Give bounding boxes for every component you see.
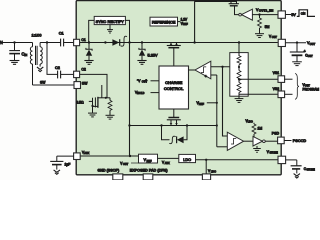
svg-text:VS1: VS1 bbox=[273, 71, 279, 75]
pin VS2 bbox=[278, 91, 285, 98]
wire to PGD pin bbox=[265, 140, 277, 142]
svg-text:AUX: AUX bbox=[84, 152, 89, 155]
pin GND (SSOP) bbox=[113, 174, 123, 180]
wire tap VS1 bbox=[239, 78, 278, 80]
svg-text:OUT2_EN: OUT2_EN bbox=[259, 9, 274, 13]
wire rail VAUX bottom bbox=[80, 155, 138, 157]
svg-text:STORE: STORE bbox=[307, 168, 316, 171]
ground under U6 bbox=[256, 146, 258, 148]
inverter U4 (VOUT2_EN buffer) bbox=[239, 13, 242, 16]
pin VLDO bbox=[202, 174, 210, 180]
svg-text:IN: IN bbox=[24, 53, 27, 57]
block VREF buffer bbox=[139, 154, 158, 163]
internal rail VAUX (top horizontal) bbox=[80, 42, 278, 44]
wire VIN to transformer primary bbox=[0, 42, 33, 44]
wire VOUT2_EN input bbox=[252, 14, 278, 16]
inverter U6 PGD driver bbox=[253, 136, 262, 146]
pin C2 bbox=[74, 71, 80, 77]
wire VS2 external bbox=[285, 93, 293, 95]
block REFERENCE bbox=[150, 17, 178, 26]
svg-text:HOLD: HOLD bbox=[137, 91, 144, 95]
wire VOUT2_EN external + waveform 5V ON bbox=[285, 14, 291, 16]
svg-text:OUT: OUT bbox=[272, 36, 278, 39]
op-amp U2 charge comparator bbox=[195, 61, 211, 79]
svg-text:C2: C2 bbox=[55, 66, 60, 70]
wire comparator to buffer bbox=[244, 140, 253, 142]
svg-text:5.25V: 5.25V bbox=[148, 54, 158, 58]
pin VS1 bbox=[278, 76, 285, 83]
svg-text:CHARGE: CHARGE bbox=[165, 80, 182, 85]
resistor divider block R1/R2/R3 bbox=[230, 53, 248, 97]
svg-text:+: + bbox=[205, 75, 207, 79]
wire VLDO drop bbox=[205, 159, 207, 161]
svg-text:SW: SW bbox=[40, 81, 46, 85]
wire VOUT external bbox=[285, 42, 306, 44]
stub + small ground under sync rectify bbox=[109, 25, 111, 30]
resistor R 1M pull-up bbox=[253, 123, 255, 124]
brace VOUT program bbox=[295, 74, 299, 100]
wire tap VS2 bbox=[239, 93, 278, 95]
svg-text:AUX: AUX bbox=[165, 162, 170, 165]
block SYNC RECTIFY bbox=[94, 16, 125, 24]
diode D2 sync rectifier (with switch squiggle) bbox=[112, 39, 119, 46]
svg-text:SW: SW bbox=[82, 81, 88, 85]
resistor R 5M pulldown bbox=[259, 15, 261, 18]
svg-text:LDO: LDO bbox=[248, 120, 253, 123]
wire store rail bbox=[128, 124, 130, 126]
wire comparator plus input bbox=[211, 74, 217, 76]
IC body U1 (power manager block) bbox=[76, 1, 281, 175]
node junction on VAUX rail bbox=[104, 41, 106, 43]
svg-text:PROGRAM: PROGRAM bbox=[303, 87, 320, 91]
ground under divider bbox=[235, 98, 244, 100]
pin PGD bbox=[278, 137, 285, 144]
svg-text:EXPOSED PAD (DFN): EXPOSED PAD (DFN) bbox=[130, 169, 168, 173]
wire comparator output to charge control bbox=[189, 69, 196, 71]
svg-text:OUT: OUT bbox=[308, 55, 314, 58]
svg-text:5M: 5M bbox=[265, 25, 270, 29]
pin VSTORE bbox=[278, 156, 286, 163]
pin C1 bbox=[74, 39, 80, 45]
ground (chevron) under 1uF bbox=[54, 170, 60, 172]
svg-text:LDO: LDO bbox=[183, 158, 191, 162]
wire vertical main VAUX drop bbox=[128, 41, 130, 43]
svg-text:CONTROL: CONTROL bbox=[164, 86, 184, 91]
pin VOUT bbox=[278, 39, 285, 46]
node junction VIN/CIN bbox=[13, 41, 15, 43]
ground below CIN bbox=[10, 60, 20, 62]
svg-text:PGOOD: PGOOD bbox=[293, 139, 307, 143]
pin EXPOSED PAD (DFN) bbox=[143, 174, 153, 180]
op-amp U5 PGOOD comparator bbox=[227, 132, 243, 150]
transistor Q1 PMOS charge path (above charge control) bbox=[170, 43, 172, 46]
wire store rail to PGOOD comparator input bbox=[217, 146, 228, 148]
diode D4 ideal diode bypass bbox=[162, 126, 170, 140]
svg-text:LDO: LDO bbox=[211, 171, 216, 174]
wire SW (primary to SW pin) bbox=[33, 84, 75, 86]
svg-text:3.5Ω: 3.5Ω bbox=[77, 101, 85, 105]
pin VOUT2_EN bbox=[278, 11, 285, 18]
wire down to PGOOD comparator bbox=[223, 67, 228, 136]
svg-text:VS2: VS2 bbox=[273, 87, 279, 91]
svg-text:ON: ON bbox=[301, 11, 306, 15]
transistor Q2 PMOS store path (below charge control) bbox=[173, 109, 175, 118]
wire VS1 external bbox=[284, 78, 292, 80]
svg-text:”: ” bbox=[146, 79, 147, 83]
svg-text:REF: REF bbox=[199, 102, 205, 106]
capacitor COUT bbox=[296, 43, 298, 52]
svg-text:GND (SSOP): GND (SSOP) bbox=[98, 169, 120, 173]
svg-text:C1: C1 bbox=[81, 38, 85, 42]
svg-text:STORE: STORE bbox=[270, 152, 279, 155]
svg-text:PGD: PGD bbox=[272, 131, 280, 135]
wire C2 branch bbox=[47, 43, 57, 75]
svg-text:OUT: OUT bbox=[310, 42, 316, 46]
capacitor CSTORE bbox=[296, 160, 298, 166]
wire VSTORE external bbox=[286, 159, 297, 161]
capacitor 1uF bbox=[56, 156, 58, 161]
wire top rail VOUT2 bbox=[195, 0, 237, 2]
wire VAUX external bbox=[57, 155, 74, 157]
svg-text:SYNC RECTIFY: SYNC RECTIFY bbox=[96, 20, 125, 24]
svg-text:C2: C2 bbox=[81, 67, 85, 71]
svg-text:REF: REF bbox=[147, 159, 153, 163]
svg-text:1µF: 1µF bbox=[65, 163, 71, 167]
ground (chevron) under transformer secondary bbox=[37, 67, 43, 69]
pin VAUX bbox=[74, 153, 81, 160]
wire secondary to coupling caps bbox=[40, 42, 60, 44]
wire C2 pin to gate node bbox=[80, 74, 107, 97]
svg-text:C1: C1 bbox=[59, 32, 64, 36]
svg-text:1M: 1M bbox=[258, 126, 263, 130]
capacitor CIN bbox=[14, 43, 16, 51]
svg-text:5V: 5V bbox=[291, 13, 296, 17]
svg-text:1:100: 1:100 bbox=[32, 33, 43, 38]
wire VREF sense vertical bbox=[216, 75, 218, 147]
resistor R gate bias bbox=[109, 98, 111, 101]
svg-text:REF: REF bbox=[183, 23, 188, 26]
wire PGD external bbox=[284, 140, 291, 142]
pin SW bbox=[74, 82, 81, 89]
node VIN bbox=[0, 0, 1, 1]
transistor Q3 PMOS VOUT2 switch bbox=[230, 1, 232, 3]
svg-text:REFERENCE: REFERENCE bbox=[152, 20, 176, 24]
svg-text:OUT: OUT bbox=[123, 163, 129, 166]
wire comparator minus input from divider bbox=[211, 66, 239, 68]
label 1.2V VREF output bbox=[178, 21, 181, 23]
zener diode D3 5.25V clamp bbox=[141, 41, 143, 43]
node junction C1/C2 branch bbox=[46, 41, 48, 43]
block LDO bbox=[179, 154, 196, 162]
zener diode clamp D1 on C1 rail bbox=[88, 41, 90, 43]
block CHARGE CONTROL bbox=[159, 66, 189, 109]
